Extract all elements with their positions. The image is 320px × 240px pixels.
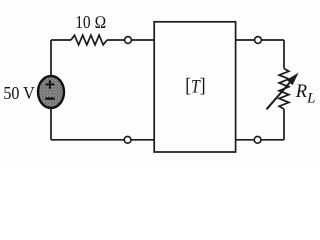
wire: bottom terminal to box right	[236, 139, 255, 141]
wire: source bottom to bottom rail	[51, 108, 124, 140]
resistor RL (variable, vertical zigzag)	[279, 69, 289, 110]
svg-text:[T]: [T]	[185, 75, 205, 98]
wire: RL bottom down and left to bottom terminal	[261, 109, 284, 140]
two-port network box U1 [T]	[154, 22, 235, 152]
source V1 50V	[38, 76, 64, 108]
arrow of variable resistor	[267, 80, 293, 110]
svg-text:50 V: 50 V	[3, 83, 35, 103]
wire: box right top to output terminal	[236, 39, 255, 41]
wire: terminal to box left top	[132, 39, 155, 41]
wire: bottom terminal to box	[131, 139, 154, 141]
node: input terminal top (open circle)	[125, 37, 132, 44]
node: output terminal top (open circle)	[255, 37, 262, 44]
wire: top-left from source up and right to resistor	[51, 40, 71, 76]
node: input terminal bottom (open circle)	[124, 136, 131, 143]
wire: resistor to top-left terminal	[107, 39, 124, 41]
svg-text:10 Ω: 10 Ω	[75, 12, 106, 32]
wire: terminal right then down to RL	[261, 40, 284, 69]
resistor R 10 ohm	[71, 35, 107, 45]
node: output terminal bottom (open circle)	[254, 136, 261, 143]
svg-text:RL: RL	[295, 82, 316, 107]
